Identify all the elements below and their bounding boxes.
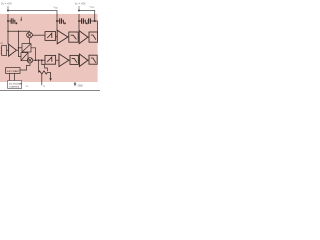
- modulator box M2: [45, 55, 56, 64]
- wire into volume box 1: [19, 47, 22, 49]
- svg-text:VC: VC: [26, 86, 29, 88]
- wire A4 to OUT2: [88, 59, 89, 61]
- IC body shaded block: [0, 14, 98, 82]
- capacitor C3 value label: [84, 20, 86, 24]
- node junction bias T: [7, 31, 9, 33]
- driver box D2: [70, 55, 78, 64]
- wire osc tap vertical: [38, 60, 40, 72]
- op-amp U1 input buffer: [9, 44, 17, 56]
- wire rail2 vertical into amp: [78, 14, 80, 31]
- node junction cap1: [7, 20, 9, 22]
- capacitor C1: [8, 20, 14, 22]
- multiplier X1: [27, 32, 33, 38]
- op-amp A4: [79, 54, 88, 67]
- wire A3 to D2: [69, 59, 70, 61]
- svg-text:DC VOLUME: DC VOLUME: [9, 84, 22, 86]
- modulator box M1: [45, 32, 56, 41]
- capacitor C2 value label: [62, 20, 64, 24]
- capacitor C3: [79, 20, 85, 22]
- wire split vertical: [19, 31, 21, 56]
- wire left supply vertical: [7, 14, 9, 44]
- node junction split: [18, 47, 20, 49]
- svg-text:CONTROL: CONTROL: [9, 87, 20, 89]
- wire left VDD rail: [8, 11, 57, 15]
- svg-text:VP = +5V: VP = +5V: [1, 2, 12, 7]
- op-amp A1: [57, 30, 68, 44]
- wire por to volume box: [10, 73, 15, 80]
- node junction cap4: [94, 20, 96, 22]
- svg-text:GND: GND: [78, 86, 83, 88]
- wire X1 bottom to AT1: [29, 38, 31, 44]
- node junction right rail: [78, 9, 80, 11]
- attenuator box AT2: [21, 53, 28, 61]
- driver box D1: [69, 32, 78, 42]
- arrowhead sink: [49, 78, 51, 81]
- wire bias line row1: [8, 31, 30, 32]
- multiplier X2: [27, 58, 32, 63]
- capacitor C1 value label: [14, 20, 16, 24]
- wire U1 output: [16, 49, 18, 51]
- wire right corner to output stage: [95, 14, 98, 32]
- node junction cap3: [78, 20, 80, 22]
- pin ticks J1: [1, 48, 2, 53]
- wire AT1 to row2 node: [31, 48, 36, 60]
- output stage box O1: [89, 32, 98, 42]
- op-amp A2: [79, 31, 88, 44]
- wire D1 to A2: [78, 36, 79, 38]
- node junction osc tap: [38, 59, 40, 61]
- figure rule line: [0, 90, 100, 92]
- wire X2 bottom to POR: [20, 63, 30, 70]
- node junction bias T2: [18, 31, 19, 32]
- capacitor C4: [87, 20, 95, 22]
- node junction row2: [35, 59, 37, 61]
- op-amp A3: [59, 54, 69, 67]
- capacitor C2: [57, 20, 63, 22]
- wire osc staircase: [42, 60, 48, 71]
- volume control box: [8, 81, 22, 89]
- node junction cap2: [56, 20, 58, 22]
- pin stub FS: [41, 74, 43, 85]
- annotation arrow at C1: [20, 17, 22, 20]
- wire A2 to OUT1: [88, 36, 89, 38]
- wire supply stub right: [78, 6, 80, 11]
- ground pin stub: [74, 82, 76, 83]
- wire right VDD rail: [79, 11, 95, 15]
- por box soft start: [6, 68, 20, 74]
- node junction staircase: [41, 59, 43, 61]
- svg-text:VP = +5V: VP = +5V: [75, 1, 86, 6]
- wire J1 to U1: [7, 49, 9, 51]
- wire X1 output row1: [32, 34, 45, 36]
- wire X2 output row2: [32, 59, 45, 61]
- wire rail1 vertical into amp: [56, 14, 58, 31]
- svg-text:VDD1: VDD1: [53, 7, 58, 9]
- svg-text:fS: fS: [43, 86, 45, 88]
- ground symbol: [74, 83, 77, 86]
- node junction left rail: [7, 9, 9, 11]
- wire current sink arrow: [50, 73, 52, 79]
- resistor R1: [39, 71, 51, 74]
- output stage box O2: [89, 55, 97, 64]
- attenuator box AT1: [22, 44, 31, 52]
- wire A1 to D1: [68, 36, 69, 38]
- svg-text:SOFT START: SOFT START: [7, 70, 20, 73]
- svg-text:VDD2: VDD2: [90, 7, 95, 9]
- wire D2 to A4: [78, 59, 79, 61]
- input connector block J1: [2, 46, 7, 56]
- wire M2 to A3: [56, 59, 59, 61]
- wire M1 to A1: [56, 35, 58, 37]
- wire supply stub left: [7, 6, 9, 11]
